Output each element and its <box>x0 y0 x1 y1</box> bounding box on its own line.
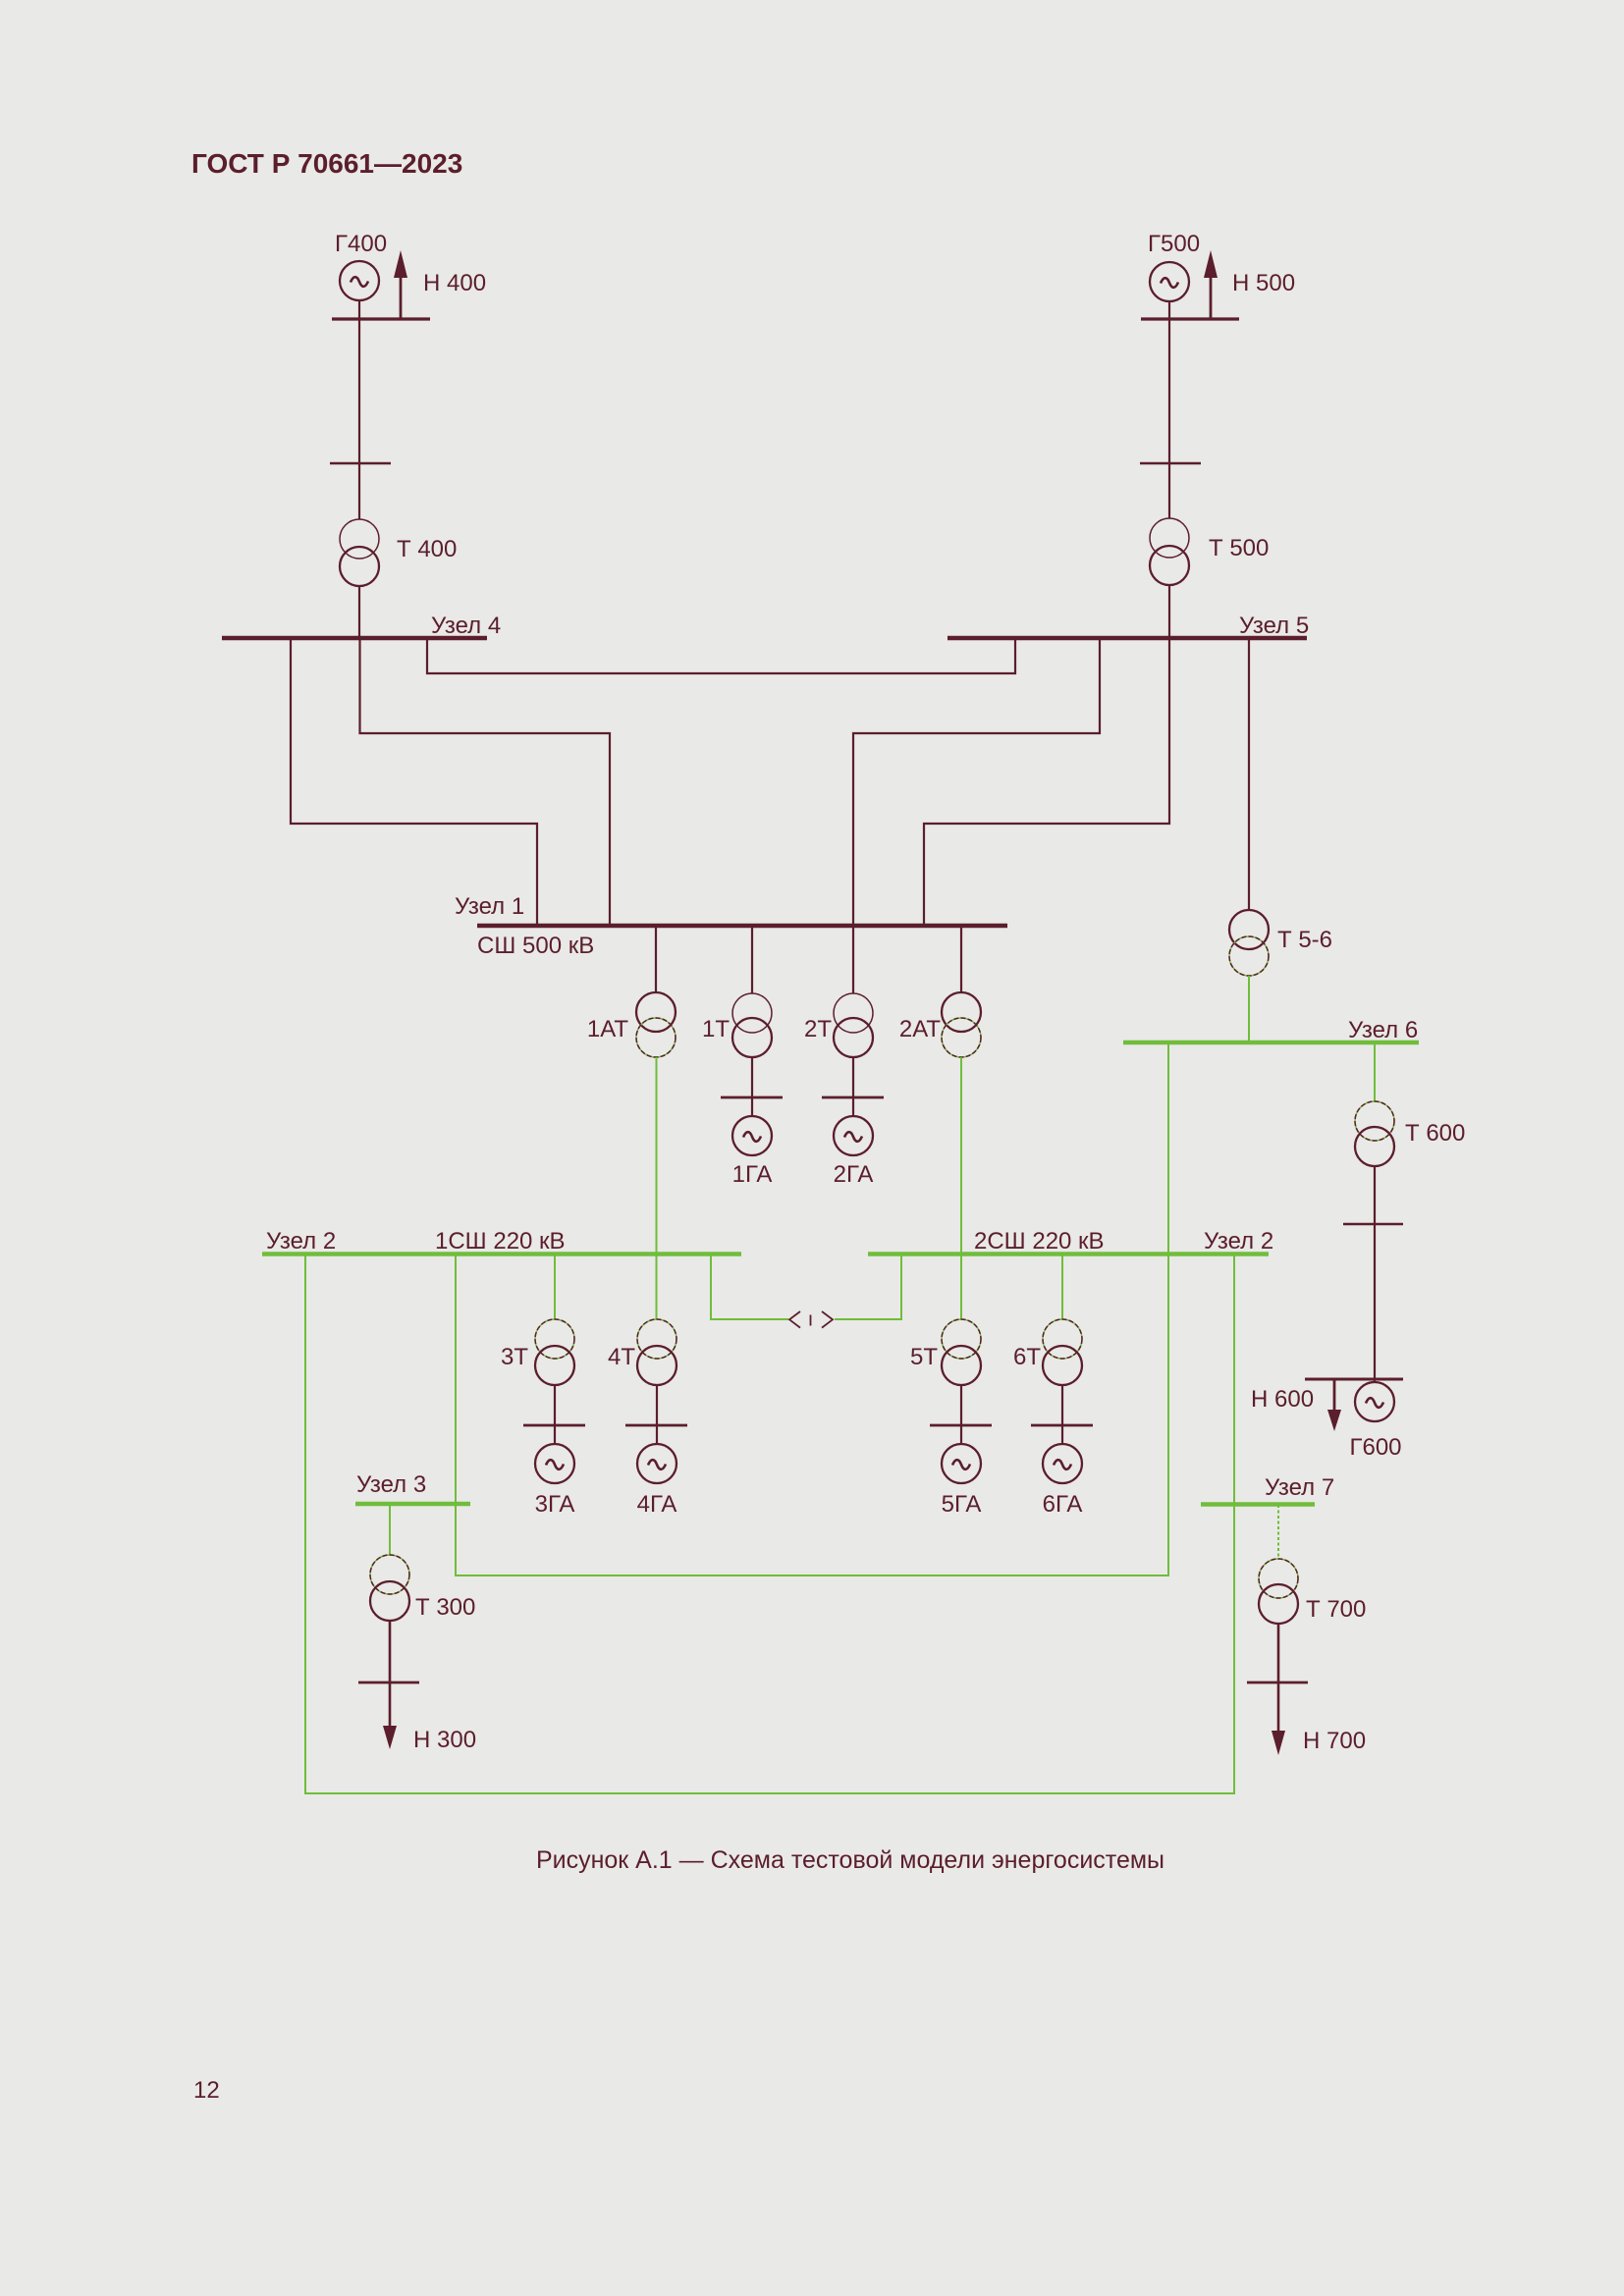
svg-text:Н 500: Н 500 <box>1232 270 1295 296</box>
svg-text:СШ 500 кВ: СШ 500 кВ <box>477 933 594 959</box>
wire 3Т to 3ГА <box>554 1385 556 1444</box>
svg-text:4ГА: 4ГА <box>637 1491 677 1518</box>
wire line Узел4–Узел5 <box>427 638 1015 673</box>
bus Узел 5 <box>947 636 1307 641</box>
svg-text:Т 700: Т 700 <box>1306 1596 1366 1623</box>
transformer Т 500 <box>1150 518 1189 585</box>
svg-text:Т 500: Т 500 <box>1209 535 1269 561</box>
generator bus Г400 <box>332 317 430 320</box>
generator bar 4ГА <box>625 1424 687 1427</box>
transformer Т 600 <box>1355 1101 1394 1166</box>
wire 5Т to 5ГА <box>960 1385 962 1444</box>
transformer Т 700 <box>1259 1559 1298 1624</box>
svg-text:Г600: Г600 <box>1349 1434 1401 1461</box>
wire 2СШ to 6Т <box>1061 1255 1063 1319</box>
generator 1ГА <box>732 1116 772 1155</box>
wire Узел2 ring via bottom <box>305 1255 1234 1793</box>
svg-text:2ГА: 2ГА <box>834 1161 874 1188</box>
svg-text:Узел 7: Узел 7 <box>1265 1474 1334 1501</box>
svg-text:2Т: 2Т <box>804 1016 832 1042</box>
svg-text:1АТ: 1АТ <box>587 1016 628 1042</box>
svg-text:Г400: Г400 <box>335 231 387 257</box>
transformer Т 5-6 <box>1229 910 1269 976</box>
svg-text:Т 300: Т 300 <box>415 1594 475 1621</box>
svg-text:6ГА: 6ГА <box>1043 1491 1083 1518</box>
svg-text:3Т: 3Т <box>501 1344 528 1370</box>
wire 4Т to 4ГА <box>656 1385 658 1444</box>
svg-text:Н 300: Н 300 <box>413 1727 476 1753</box>
svg-text:Т 5-6: Т 5-6 <box>1277 927 1332 953</box>
svg-text:Г500: Г500 <box>1148 231 1200 257</box>
svg-text:Узел 6: Узел 6 <box>1348 1017 1418 1043</box>
svg-text:Т 600: Т 600 <box>1405 1120 1465 1147</box>
generator 3ГА <box>535 1444 574 1483</box>
load arrow Н 500 <box>1204 250 1218 319</box>
disconnector tick Т300 chain <box>358 1682 419 1684</box>
svg-text:Узел 1: Узел 1 <box>455 893 524 920</box>
bus Узел 1 СШ 500 кВ <box>477 924 1007 929</box>
transformer 2Т <box>834 993 873 1057</box>
transformer 1Т <box>732 993 772 1057</box>
wire line Узел5–Узел1 upper <box>853 638 1100 926</box>
svg-text:1СШ 220 кВ: 1СШ 220 кВ <box>435 1228 566 1255</box>
wire line Узел4–Узел1 lower <box>291 638 537 926</box>
wire Узел6 to Т600 <box>1374 1042 1376 1101</box>
svg-text:Рисунок А.1 — Схема тестовой м: Рисунок А.1 — Схема тестовой модели энер… <box>536 1846 1164 1874</box>
wire 1Т to 1ГА <box>751 1057 753 1116</box>
svg-text:Н 700: Н 700 <box>1303 1728 1366 1754</box>
svg-text:2АТ: 2АТ <box>899 1016 941 1042</box>
svg-text:6Т: 6Т <box>1013 1344 1041 1370</box>
load arrow Н 400 <box>394 250 407 319</box>
generator bar 3ГА <box>523 1424 585 1427</box>
wire bus to disconnector <box>1168 319 1170 518</box>
svg-text:5Т: 5Т <box>910 1344 938 1370</box>
svg-text:5ГА: 5ГА <box>942 1491 982 1518</box>
bus Узел 7 <box>1201 1502 1315 1507</box>
svg-text:1ГА: 1ГА <box>732 1161 773 1188</box>
bus 1СШ 220 кВ (Узел 2) <box>262 1252 741 1256</box>
svg-text:Узел 5: Узел 5 <box>1239 613 1309 639</box>
wire Г400 to bus <box>358 300 360 319</box>
wire Т600 down <box>1374 1166 1376 1379</box>
transformer 6Т <box>1043 1319 1082 1385</box>
wire Т500 to Узел 5 <box>1168 585 1170 638</box>
generator 2ГА <box>834 1116 873 1155</box>
transformer Т 300 <box>370 1555 409 1621</box>
svg-text:3ГА: 3ГА <box>535 1491 575 1518</box>
load arrow Н 700 <box>1272 1731 1285 1755</box>
wire bus to disconnector <box>358 319 360 519</box>
wire Т5-6 to Узел 6 <box>1248 976 1250 1042</box>
bus Узел 4 <box>222 636 487 641</box>
generator bar Г600 <box>1305 1378 1403 1381</box>
generator 5ГА <box>942 1444 981 1483</box>
svg-text:Узел 2: Узел 2 <box>266 1228 336 1255</box>
generator bar 2ГА <box>822 1096 884 1099</box>
svg-text:1Т: 1Т <box>702 1016 730 1042</box>
wire 1СШ to 3Т <box>554 1255 556 1319</box>
wire Узел5 to Т5-6 <box>1248 638 1250 910</box>
generator bar 5ГА <box>930 1424 992 1427</box>
wire breaker to 2СШ <box>835 1255 901 1319</box>
disconnector tick Т600 chain <box>1343 1223 1403 1226</box>
wire Т700 to load <box>1277 1624 1280 1734</box>
svg-text:Н 400: Н 400 <box>423 270 486 296</box>
svg-text:4Т: 4Т <box>608 1344 635 1370</box>
wire line Узел4–Узел1 upper <box>360 638 611 926</box>
wire Т300 to load <box>389 1621 392 1730</box>
wire 1АТ to 1СШ and down to 4Т <box>656 1057 658 1319</box>
transformer 3Т <box>535 1319 574 1385</box>
wire Узел3–Узел6 tie <box>456 1042 1168 1575</box>
load arrow Н 600 <box>1327 1379 1341 1431</box>
wire 2АТ to 2СШ and down to 5Т <box>960 1057 962 1319</box>
load arrow Н 300 <box>383 1726 397 1749</box>
autotransformer 1АТ <box>636 992 676 1057</box>
wire Узел7 to Т700 <box>1277 1505 1279 1559</box>
generator Г400 <box>340 261 379 300</box>
transformer 5Т <box>942 1319 981 1385</box>
breaker chevrons <box>789 1311 833 1328</box>
generator bar 1ГА <box>721 1096 783 1099</box>
wire Т400 to Узел 4 <box>358 586 360 638</box>
disconnector tick Т700 chain <box>1247 1682 1308 1684</box>
generator 4ГА <box>637 1444 677 1483</box>
svg-text:2СШ 220 кВ: 2СШ 220 кВ <box>974 1228 1105 1255</box>
svg-text:Н 600: Н 600 <box>1251 1386 1314 1413</box>
wire Узел1 to 2АТ <box>960 926 962 992</box>
svg-text:Узел 4: Узел 4 <box>431 613 501 639</box>
svg-text:ГОСТ Р 70661—2023: ГОСТ Р 70661—2023 <box>191 148 462 179</box>
wire Г500 to bus <box>1168 301 1170 319</box>
bus Узел 3 <box>355 1502 470 1507</box>
wire Узел1 to 1АТ <box>655 926 657 992</box>
wire 6Т to 6ГА <box>1061 1385 1063 1444</box>
transformer Т 400 <box>340 519 379 586</box>
generator bus Г500 <box>1141 317 1239 320</box>
svg-text:Узел 3: Узел 3 <box>356 1471 426 1498</box>
generator Г600 <box>1355 1379 1394 1421</box>
svg-text:12: 12 <box>193 2077 220 2104</box>
wire Узел3 to Т300 <box>389 1504 391 1555</box>
generator 6ГА <box>1043 1444 1082 1483</box>
generator bar 6ГА <box>1031 1424 1093 1427</box>
svg-text:Узел 2: Узел 2 <box>1204 1228 1273 1255</box>
disconnector tick G400 chain <box>330 462 391 465</box>
bus Узел 6 <box>1123 1041 1419 1045</box>
wire Узел1 to 2Т <box>852 926 854 993</box>
wire Узел1 to 1Т <box>751 926 753 993</box>
wire 1СШ to breaker <box>711 1255 788 1319</box>
wire 2Т to 2ГА <box>852 1057 854 1116</box>
bus 2СШ 220 кВ (Узел 2) <box>868 1252 1269 1256</box>
transformer 4Т <box>637 1319 677 1385</box>
svg-text:Т 400: Т 400 <box>397 536 457 562</box>
wire line Узел5–Узел1 lower <box>924 638 1169 926</box>
generator Г500 <box>1150 262 1189 301</box>
disconnector tick G500 chain <box>1140 462 1201 465</box>
autotransformer 2АТ <box>942 992 981 1057</box>
